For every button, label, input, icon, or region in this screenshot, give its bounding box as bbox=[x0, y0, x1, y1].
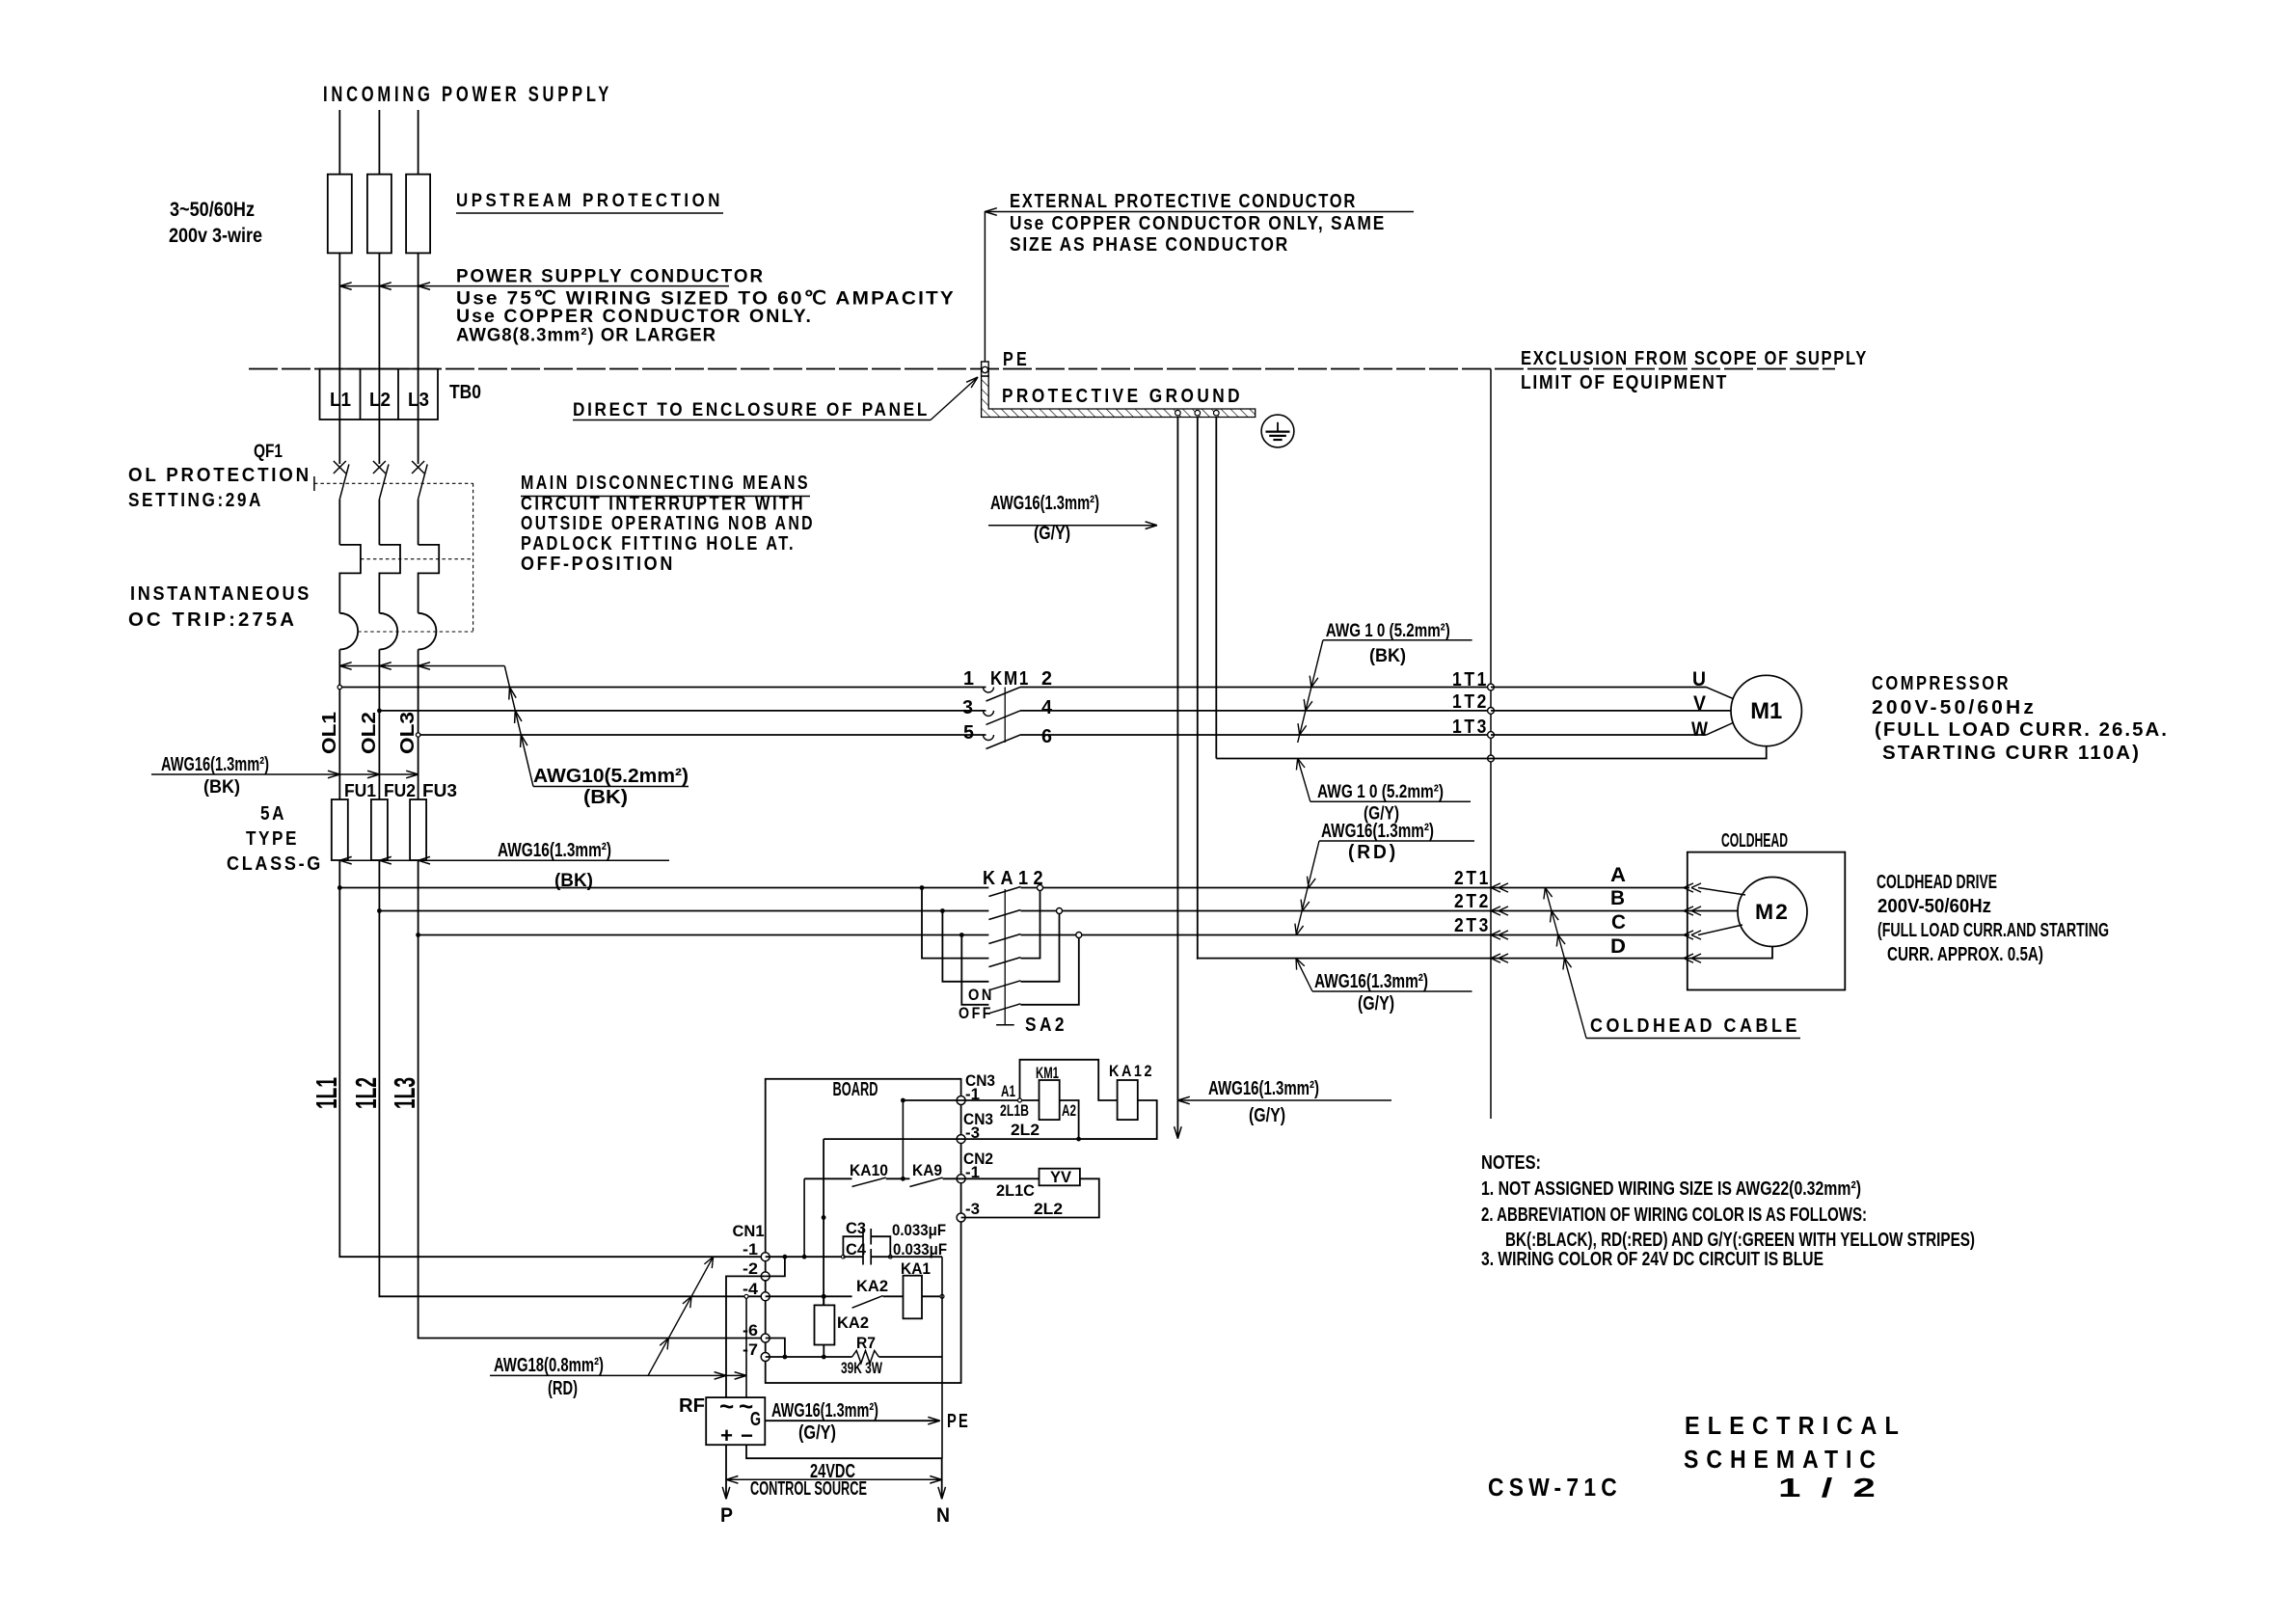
svg-text:5: 5 bbox=[963, 722, 974, 744]
svg-text:(G/Y): (G/Y) bbox=[798, 1422, 836, 1444]
breaker QF1 pole 3 bbox=[412, 461, 424, 474]
svg-text:M2: M2 bbox=[1755, 900, 1790, 924]
terminal CN2-3 bbox=[957, 1213, 965, 1222]
svg-text:(FULL LOAD CURR. 26.5A.: (FULL LOAD CURR. 26.5A. bbox=[1875, 719, 2169, 741]
wire CN1-4 row with KA2 contact and KA1 bbox=[766, 1295, 852, 1297]
svg-text:AWG16(1.3mm²): AWG16(1.3mm²) bbox=[1208, 1078, 1319, 1099]
svg-text:AWG16(1.3mm²): AWG16(1.3mm²) bbox=[1314, 971, 1428, 992]
svg-text:KA1: KA1 bbox=[901, 1259, 931, 1278]
terminal CN1-7 bbox=[761, 1353, 770, 1362]
svg-text:KA2: KA2 bbox=[856, 1277, 888, 1295]
SA2 OFF row parallel pole3 bbox=[961, 935, 988, 1005]
svg-text:A1: A1 bbox=[1001, 1082, 1015, 1100]
svg-text:AWG16(1.3mm²): AWG16(1.3mm²) bbox=[771, 1400, 878, 1421]
motor M1 compressor bbox=[1731, 675, 1801, 745]
svg-text:(BK): (BK) bbox=[203, 777, 240, 798]
node L1 KM1 branch bbox=[339, 687, 986, 689]
svg-text:2L1B: 2L1B bbox=[1000, 1101, 1029, 1120]
svg-text:SETTING:29A: SETTING:29A bbox=[128, 490, 263, 511]
svg-text:3~50/60Hz: 3~50/60Hz bbox=[170, 199, 255, 221]
svg-text:N: N bbox=[936, 1504, 950, 1527]
svg-text:CIRCUIT INTERRUPTER WITH: CIRCUIT INTERRUPTER WITH bbox=[521, 494, 805, 515]
wire CN3-1 to A1 bbox=[961, 1099, 1040, 1101]
wire 1L3 down and to CN1-6 bbox=[419, 860, 766, 1339]
motor M2 coldhead bbox=[1738, 878, 1807, 947]
svg-text:2T3: 2T3 bbox=[1454, 915, 1491, 936]
svg-text:CURR. APPROX. 0.5A): CURR. APPROX. 0.5A) bbox=[1887, 944, 2043, 965]
wire 1L1 down and to CN1-1 bbox=[339, 860, 765, 1257]
svg-text:CSW-71C: CSW-71C bbox=[1488, 1473, 1622, 1502]
svg-text:(BK): (BK) bbox=[1369, 646, 1406, 666]
RF ac riser to CN1-4 wire bbox=[745, 1296, 747, 1397]
wire N output bbox=[746, 1445, 942, 1499]
svg-text:PE: PE bbox=[1003, 349, 1030, 370]
wire CN1-6 CN1-7 link bbox=[766, 1339, 785, 1358]
svg-text:STARTING CURR 110A): STARTING CURR 110A) bbox=[1882, 743, 2141, 764]
svg-text:CLASS-G: CLASS-G bbox=[227, 853, 323, 875]
svg-text:COMPRESSOR: COMPRESSOR bbox=[1872, 673, 2011, 694]
svg-text:EXTERNAL PROTECTIVE CONDUCTOR: EXTERNAL PROTECTIVE CONDUCTOR bbox=[1010, 191, 1357, 212]
connector circles on limit line compressor bbox=[1488, 684, 1495, 690]
breaker QF1 pole 1 bbox=[334, 461, 346, 474]
svg-text:Use COPPER CONDUCTOR ONLY, SAM: Use COPPER CONDUCTOR ONLY, SAME bbox=[1010, 213, 1386, 234]
svg-text:OC TRIP:275A: OC TRIP:275A bbox=[128, 609, 297, 631]
G/Y wire 2 from ground bar bbox=[1197, 418, 1199, 960]
ground bar connector circles bbox=[1175, 410, 1181, 416]
wire CN3-3 2L2 bbox=[961, 1138, 1157, 1140]
wire R7 to right riser bbox=[878, 1356, 942, 1358]
svg-text:OL2: OL2 bbox=[359, 712, 380, 754]
svg-text:FU2: FU2 bbox=[384, 781, 416, 800]
terminal CN2-1 bbox=[957, 1175, 965, 1183]
svg-text:PADLOCK FITTING HOLE AT.: PADLOCK FITTING HOLE AT. bbox=[521, 533, 796, 555]
24VDC dimension arrow bbox=[726, 1478, 942, 1480]
wire incoming L2 bbox=[378, 110, 380, 175]
svg-text:C4: C4 bbox=[846, 1240, 867, 1259]
coil KA2 bbox=[815, 1305, 835, 1344]
svg-text:200v 3-wire: 200v 3-wire bbox=[169, 225, 262, 247]
SA2 ON row parallel pole2 bbox=[942, 911, 988, 982]
fuse upstream F-L2 bbox=[367, 175, 392, 254]
wire CN1-7 to R7 bbox=[766, 1356, 852, 1358]
svg-text:INCOMING POWER SUPPLY: INCOMING POWER SUPPLY bbox=[323, 82, 612, 106]
earth symbol bbox=[1261, 415, 1294, 447]
solenoid YV bbox=[1040, 1169, 1080, 1186]
svg-text:2L2: 2L2 bbox=[1034, 1200, 1063, 1218]
svg-text:(RD): (RD) bbox=[548, 1378, 578, 1399]
node A1 bbox=[1018, 1098, 1022, 1102]
svg-text:P: P bbox=[720, 1504, 733, 1527]
wire V bbox=[1491, 710, 1731, 712]
svg-text:200V-50/60Hz: 200V-50/60Hz bbox=[1872, 697, 2037, 718]
M2 wire D drop bbox=[1689, 947, 1772, 959]
svg-text:CN1: CN1 bbox=[733, 1222, 765, 1240]
fuse FU2 bbox=[371, 799, 388, 860]
wire RF G to PE bbox=[765, 1420, 939, 1421]
contactor KM1 pole 3-4 bbox=[984, 711, 994, 717]
svg-text:INSTANTANEOUS: INSTANTANEOUS bbox=[130, 583, 311, 605]
svg-text:-1: -1 bbox=[743, 1240, 758, 1259]
svg-text:1: 1 bbox=[963, 668, 974, 690]
svg-text:-2: -2 bbox=[743, 1259, 758, 1278]
svg-text:AWG16(1.3mm²): AWG16(1.3mm²) bbox=[161, 754, 269, 775]
G/Y wire 3 from ground bar to M1 earth bbox=[1215, 418, 1217, 759]
right riser of board loop bbox=[941, 1257, 943, 1458]
annotation arrow AWG10 under QF1 bbox=[339, 665, 504, 667]
terminal CN1-2 bbox=[761, 1272, 770, 1281]
fuse FU1 bbox=[332, 799, 348, 860]
KA12 wire pole3 left bbox=[419, 934, 989, 936]
svg-text:RF: RF bbox=[679, 1395, 705, 1417]
svg-text:EXCLUSION FROM SCOPE OF SUPPLY: EXCLUSION FROM SCOPE OF SUPPLY bbox=[1521, 348, 1868, 369]
svg-text:(G/Y): (G/Y) bbox=[1034, 524, 1070, 544]
wire CN1-1 net bbox=[766, 1256, 844, 1258]
svg-text:V: V bbox=[1693, 692, 1706, 715]
svg-text:1. NOT ASSIGNED WIRING SIZE IS: 1. NOT ASSIGNED WIRING SIZE IS AWG22(0.3… bbox=[1481, 1178, 1861, 1200]
QF1 linkage dashes bbox=[313, 476, 315, 491]
wire CN2-1 2L1C to YV bbox=[961, 1177, 1040, 1179]
svg-text:(G/Y): (G/Y) bbox=[1358, 993, 1394, 1015]
contact KA9 bbox=[909, 1177, 942, 1186]
svg-text:3: 3 bbox=[962, 697, 973, 718]
svg-text:OL1: OL1 bbox=[319, 712, 340, 754]
svg-text:A2: A2 bbox=[1062, 1101, 1076, 1120]
svg-text:MAIN DISCONNECTING MEANS: MAIN DISCONNECTING MEANS bbox=[521, 473, 810, 494]
svg-text:TB0: TB0 bbox=[449, 382, 481, 403]
fuse upstream F-L3 bbox=[406, 175, 430, 254]
breaker QF1 pole 2 bbox=[373, 461, 386, 474]
PE terminal bbox=[982, 362, 989, 376]
KM1 linkage bbox=[1004, 688, 1006, 744]
capacitor C3 C4 bracket bbox=[843, 1236, 863, 1257]
coil KA1 bbox=[904, 1276, 923, 1319]
svg-text:KA10: KA10 bbox=[850, 1161, 888, 1179]
wire KM1 A1 top bracket to KA12 bbox=[1020, 1060, 1118, 1100]
svg-text:BK(:BLACK), RD(:RED) AND G/Y(:: BK(:BLACK), RD(:RED) AND G/Y(:GREEN WITH… bbox=[1505, 1230, 1975, 1251]
wire KM1 A2 to 2L2 bbox=[1060, 1100, 1079, 1139]
KA12 pole1 contact bbox=[988, 887, 1020, 897]
svg-text:~: ~ bbox=[719, 1392, 734, 1421]
wire YV right to CN2-3 bbox=[961, 1178, 1099, 1217]
wire U bbox=[1491, 687, 1706, 689]
protective ground bar bbox=[982, 376, 1256, 418]
external protective conductor line bbox=[984, 211, 986, 362]
svg-text:COLDHEAD DRIVE: COLDHEAD DRIVE bbox=[1877, 872, 1997, 893]
svg-text:TYPE: TYPE bbox=[246, 828, 299, 850]
KA12 wire pole2 left bbox=[379, 910, 988, 912]
svg-text:KA9: KA9 bbox=[912, 1161, 942, 1179]
contact KA2 bbox=[852, 1296, 883, 1309]
svg-text:2L2: 2L2 bbox=[1011, 1121, 1040, 1139]
svg-text:SCHEMATIC: SCHEMATIC bbox=[1684, 1445, 1883, 1474]
svg-text:AWG 1 0 (5.2mm²): AWG 1 0 (5.2mm²) bbox=[1317, 782, 1444, 802]
wire KA12 right to 2L2 bbox=[1079, 1100, 1157, 1139]
coil KM1 bbox=[1040, 1080, 1060, 1120]
svg-text:+: + bbox=[720, 1423, 733, 1448]
wire W bbox=[1491, 734, 1706, 736]
capacitor C4 in line bbox=[843, 1256, 863, 1258]
svg-text:ON: ON bbox=[968, 986, 994, 1004]
svg-text:0.033μF: 0.033μF bbox=[893, 1240, 947, 1259]
bus line bbox=[249, 368, 1835, 370]
wire B to coldhead bbox=[1491, 910, 1738, 912]
svg-text:COLDHEAD CABLE: COLDHEAD CABLE bbox=[1590, 1015, 1800, 1037]
svg-text:U: U bbox=[1692, 668, 1706, 690]
svg-text:KA12: KA12 bbox=[1109, 1062, 1154, 1080]
svg-text:L2: L2 bbox=[369, 390, 391, 411]
svg-text:39K 3W: 39K 3W bbox=[841, 1359, 883, 1377]
node L3 KM1 branch bbox=[419, 734, 986, 736]
svg-text:R7: R7 bbox=[856, 1334, 876, 1352]
svg-text:OL3: OL3 bbox=[397, 712, 419, 754]
coil KA12 bbox=[1118, 1080, 1138, 1120]
wire CN1-2 loop to RF bbox=[766, 1257, 785, 1276]
SA2 linkage and T bar bbox=[1004, 889, 1006, 1025]
svg-text:AWG16(1.3mm²): AWG16(1.3mm²) bbox=[1321, 821, 1434, 842]
svg-text:2T2: 2T2 bbox=[1454, 891, 1491, 912]
KA12 pole2 contact bbox=[988, 910, 1020, 920]
svg-text:OL PROTECTION: OL PROTECTION bbox=[128, 465, 311, 486]
svg-text:AWG10(5.2mm²): AWG10(5.2mm²) bbox=[533, 766, 689, 787]
rectifier RF bbox=[706, 1397, 765, 1445]
board outline bbox=[766, 1079, 961, 1383]
svg-text:SIZE AS PHASE CONDUCTOR: SIZE AS PHASE CONDUCTOR bbox=[1010, 234, 1289, 256]
svg-text:L3: L3 bbox=[408, 390, 429, 411]
svg-text:AWG16(1.3mm²): AWG16(1.3mm²) bbox=[990, 493, 1099, 514]
fuse FU3 bbox=[410, 799, 426, 860]
svg-text:AWG18(0.8mm²): AWG18(0.8mm²) bbox=[494, 1355, 604, 1376]
svg-text:C: C bbox=[1611, 911, 1626, 934]
svg-text:M1: M1 bbox=[1750, 698, 1782, 724]
svg-text:L1: L1 bbox=[330, 390, 351, 411]
limit of equipment line bbox=[1490, 369, 1492, 1120]
svg-text:OFF-POSITION: OFF-POSITION bbox=[521, 554, 675, 575]
svg-text:5A: 5A bbox=[260, 803, 286, 825]
terminal CN1-6 bbox=[761, 1334, 770, 1342]
svg-text:C3: C3 bbox=[846, 1219, 866, 1237]
svg-text:A: A bbox=[1610, 864, 1626, 886]
svg-text:COLDHEAD: COLDHEAD bbox=[1721, 830, 1788, 852]
riser CN3-1 to KA9/KA10 wire bbox=[902, 1100, 904, 1178]
contactor KM1 pole 5-6 bbox=[984, 735, 994, 741]
svg-text:4: 4 bbox=[1041, 697, 1053, 718]
svg-text:DIRECT TO ENCLOSURE OF PANEL: DIRECT TO ENCLOSURE OF PANEL bbox=[573, 400, 930, 420]
fuse upstream F-L1 bbox=[328, 175, 352, 254]
svg-text:FU3: FU3 bbox=[422, 781, 457, 800]
svg-text:200V-50/60Hz: 200V-50/60Hz bbox=[1877, 896, 1991, 917]
svg-text:QF1: QF1 bbox=[254, 442, 283, 462]
svg-text:1T2: 1T2 bbox=[1452, 691, 1489, 713]
wire P output bbox=[725, 1445, 727, 1499]
svg-text:D: D bbox=[1610, 935, 1626, 958]
svg-text:AWG16(1.3mm²): AWG16(1.3mm²) bbox=[498, 840, 611, 861]
wire C to coldhead bbox=[1491, 934, 1689, 936]
wire A to coldhead bbox=[1491, 887, 1689, 889]
svg-text:-7: -7 bbox=[743, 1340, 758, 1359]
svg-text:FU1: FU1 bbox=[344, 781, 376, 800]
wire L1 to bus bbox=[338, 253, 340, 464]
wire incoming L1 bbox=[338, 110, 340, 175]
svg-text:BOARD: BOARD bbox=[833, 1079, 878, 1100]
svg-text:1T3: 1T3 bbox=[1452, 717, 1489, 738]
terminal CN1-1 bbox=[761, 1253, 770, 1261]
svg-text:LIMIT OF EQUIPMENT: LIMIT OF EQUIPMENT bbox=[1521, 372, 1728, 393]
svg-text:1L3: 1L3 bbox=[388, 1077, 421, 1109]
KA12 wire pole1 left bbox=[339, 887, 988, 889]
svg-text:-6: -6 bbox=[743, 1321, 758, 1340]
svg-text:2L1C: 2L1C bbox=[996, 1181, 1035, 1200]
KA12 pole3 contact bbox=[988, 934, 1020, 944]
G/Y wire 1 from ground bar bbox=[1176, 418, 1178, 1139]
node L2 KM1 branch bbox=[379, 710, 986, 712]
wire L2 to bus bbox=[378, 253, 380, 464]
svg-text:PROTECTIVE GROUND: PROTECTIVE GROUND bbox=[1002, 386, 1243, 407]
wire L3 to bus bbox=[418, 253, 419, 464]
M2 wire A diagonal bbox=[1698, 888, 1745, 896]
svg-text:1L2: 1L2 bbox=[349, 1077, 383, 1109]
svg-text:YV: YV bbox=[1050, 1168, 1072, 1186]
M1 earth wire bbox=[1216, 746, 1766, 759]
svg-text:2. ABBREVIATION OF WIRING COLO: 2. ABBREVIATION OF WIRING COLOR IS AS FO… bbox=[1481, 1204, 1867, 1226]
svg-text:SA2: SA2 bbox=[1025, 1015, 1067, 1036]
wire KA10 KA9 row bbox=[804, 1177, 851, 1179]
svg-text:(RD): (RD) bbox=[1348, 842, 1398, 863]
svg-text:(BK): (BK) bbox=[583, 787, 628, 808]
wire CN3-3 into board bbox=[824, 1138, 961, 1140]
terminal CN3-1 bbox=[957, 1096, 965, 1105]
svg-text:POWER SUPPLY CONDUCTOR: POWER SUPPLY CONDUCTOR bbox=[456, 267, 765, 287]
svg-text:Use COPPER CONDUCTOR ONLY.: Use COPPER CONDUCTOR ONLY. bbox=[456, 307, 813, 327]
svg-text:1/2: 1/2 bbox=[1778, 1473, 1896, 1502]
svg-text:KM1: KM1 bbox=[1036, 1064, 1059, 1082]
svg-text:NOTES:: NOTES: bbox=[1481, 1152, 1541, 1174]
terminal block TB0 bbox=[320, 369, 439, 420]
svg-text:ELECTRICAL: ELECTRICAL bbox=[1685, 1411, 1906, 1440]
svg-text:KA2: KA2 bbox=[837, 1313, 869, 1332]
svg-text:AWG8(8.3mm²) OR LARGER: AWG8(8.3mm²) OR LARGER bbox=[456, 326, 716, 346]
wire 1L2 down and to CN1-4 bbox=[379, 860, 765, 1296]
svg-text:0.033μF: 0.033μF bbox=[892, 1221, 946, 1239]
svg-text:2T1: 2T1 bbox=[1454, 868, 1491, 889]
coldhead box bbox=[1688, 853, 1846, 990]
contact KA10 bbox=[852, 1177, 886, 1186]
svg-text:-3: -3 bbox=[965, 1200, 980, 1218]
svg-text:6: 6 bbox=[1041, 726, 1052, 747]
svg-text:3. WIRING COLOR OF 24V DC CIRC: 3. WIRING COLOR OF 24V DC CIRCUIT IS BLU… bbox=[1481, 1249, 1823, 1270]
svg-text:(FULL LOAD CURR.AND STARTING: (FULL LOAD CURR.AND STARTING bbox=[1877, 920, 2109, 941]
SA2 row parallel pole1 bbox=[922, 888, 988, 959]
svg-text:UPSTREAM PROTECTION: UPSTREAM PROTECTION bbox=[456, 191, 723, 211]
svg-text:PE: PE bbox=[947, 1411, 970, 1432]
wire D from coldhead bbox=[1198, 958, 1689, 960]
svg-text:B: B bbox=[1610, 887, 1625, 909]
terminal CN3-3 bbox=[957, 1135, 965, 1144]
svg-text:OFF: OFF bbox=[959, 1004, 993, 1022]
svg-text:CONTROL SOURCE: CONTROL SOURCE bbox=[750, 1478, 867, 1500]
resistor R7 bbox=[852, 1351, 879, 1364]
svg-text:−: − bbox=[741, 1423, 753, 1448]
svg-text:OUTSIDE OPERATING NOB AND: OUTSIDE OPERATING NOB AND bbox=[521, 513, 815, 534]
svg-text:W: W bbox=[1691, 718, 1708, 741]
svg-text:AWG 1 0 (5.2mm²): AWG 1 0 (5.2mm²) bbox=[1326, 621, 1450, 641]
svg-text:1T1: 1T1 bbox=[1452, 669, 1489, 690]
wire incoming L3 bbox=[418, 110, 419, 175]
M2 wire C diagonal bbox=[1698, 925, 1742, 935]
contactor KM1 pole 1-2 bbox=[984, 688, 994, 693]
terminal CN1-4 bbox=[761, 1292, 770, 1301]
riser KA10 to CN1-1 wire bbox=[803, 1178, 805, 1257]
svg-text:(G/Y): (G/Y) bbox=[1249, 1105, 1285, 1126]
svg-text:1L1: 1L1 bbox=[310, 1077, 343, 1109]
